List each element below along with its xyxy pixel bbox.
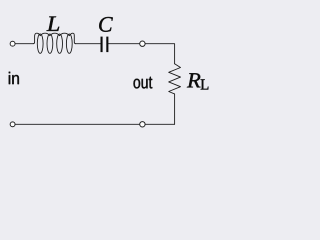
resistor RL zigzag: [169, 64, 181, 94]
inductor L loop 1: [37, 34, 43, 53]
wire: input terminal to inductor: [15, 43, 33, 45]
wire: bottom rail right segment: [145, 123, 174, 125]
resistor bottom lead: [174, 94, 176, 124]
node: out (top open circle): [140, 41, 145, 46]
capacitor C plates: [101, 37, 109, 53]
wire: inductor to capacitor: [76, 43, 101, 45]
wire: bottom rail left segment: [15, 123, 140, 125]
inductor L (lead-in, top humps, lead-out): [33, 33, 75, 44]
label R (resistor): [187, 73, 201, 87]
label in: [9, 72, 19, 84]
wire: capacitor to out node: [108, 43, 139, 45]
label L (inductor): [47, 17, 60, 31]
node: out return (bottom open circle): [140, 122, 145, 127]
label out: [134, 77, 153, 89]
input terminal bottom-left (open circle): [10, 122, 15, 127]
inductor L loop 3: [57, 34, 63, 53]
wire: out node to top-right corner, down to resistor: [145, 44, 174, 64]
label C (capacitor): [99, 17, 113, 32]
inductor L loop 2: [47, 34, 53, 53]
label L subscript of RL: [201, 79, 209, 89]
inductor L loop 4: [66, 34, 72, 53]
input terminal top-left (open circle): [10, 41, 15, 46]
